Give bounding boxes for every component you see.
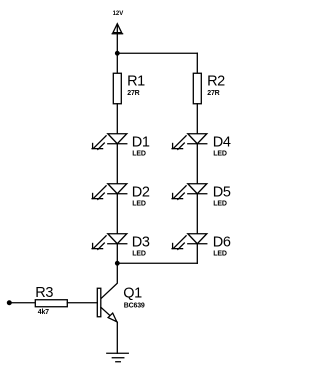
wire supply to R1	[116, 53, 118, 73]
svg-text:27R: 27R	[207, 90, 219, 97]
svg-text:D2: D2	[132, 184, 150, 200]
svg-text:LED: LED	[132, 150, 146, 157]
terminal input	[7, 300, 12, 305]
wire D6 to bottom rail	[196, 244, 198, 264]
LED D2	[92, 184, 127, 200]
node junction top	[115, 51, 120, 56]
svg-text:D3: D3	[132, 234, 150, 250]
svg-text:R1: R1	[127, 73, 145, 89]
wire D1 to D2	[116, 144, 118, 184]
wire emitter to ground	[116, 322, 118, 353]
resistor R3	[35, 300, 67, 307]
wire D5 to D6	[196, 194, 198, 234]
wire R2 to D4	[196, 104, 198, 134]
svg-text:R2: R2	[207, 73, 225, 89]
svg-text:D6: D6	[213, 234, 231, 250]
svg-text:4k7: 4k7	[38, 309, 49, 316]
resistor R2	[193, 73, 201, 104]
resistor R1	[113, 73, 121, 104]
svg-text:Q1: Q1	[123, 285, 142, 301]
LED D4	[172, 134, 207, 150]
svg-text:R3: R3	[35, 285, 53, 301]
LED D1	[92, 134, 127, 150]
wire top rail to R2	[196, 53, 198, 73]
power supply 12V	[112, 24, 122, 54]
svg-text:LED: LED	[132, 250, 146, 257]
ground	[107, 353, 129, 362]
svg-text:LED: LED	[213, 150, 227, 157]
wire top rail	[117, 52, 197, 54]
LED D6	[172, 234, 207, 250]
svg-text:LED: LED	[213, 200, 227, 207]
wire D2 to D3	[116, 194, 118, 234]
svg-text:LED: LED	[132, 200, 146, 207]
transistor Q1	[97, 288, 117, 322]
svg-text:LED: LED	[213, 250, 227, 257]
wire input to R3	[11, 302, 35, 304]
svg-text:D4: D4	[213, 134, 231, 150]
wire junction to collector	[101, 263, 118, 299]
wire bottom rail	[117, 262, 197, 264]
svg-text:D5: D5	[213, 184, 231, 200]
LED D3	[92, 234, 127, 250]
svg-text:12V: 12V	[113, 11, 124, 17]
svg-text:BC639: BC639	[124, 302, 145, 309]
wire D4 to D5	[196, 144, 198, 184]
node junction bottom	[115, 261, 120, 266]
svg-text:27R: 27R	[127, 90, 139, 97]
svg-text:D1: D1	[132, 134, 150, 150]
wire R1 to D1	[116, 104, 118, 134]
LED D5	[172, 184, 207, 200]
wire R3 to base	[67, 302, 97, 304]
wire D3 to bottom junction	[116, 244, 118, 264]
